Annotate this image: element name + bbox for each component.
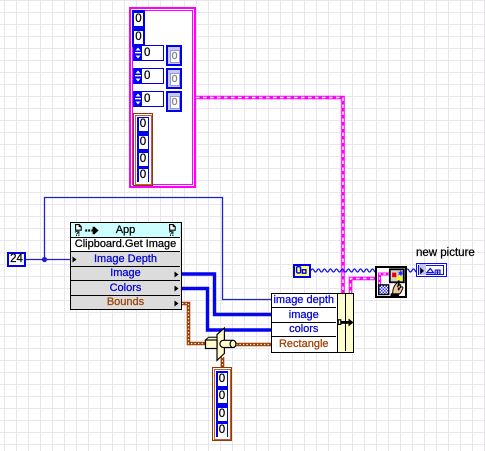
- numeric constant 24: [7, 252, 26, 267]
- property row Bounds: [71, 296, 180, 309]
- header icon: dotted arrow: [85, 226, 99, 235]
- internal magenta wire elbow: [380, 274, 390, 285]
- header icon: page with ?! (left): [75, 224, 84, 236]
- wire: thick blue Image output to bundle-by-name image input: [182, 274, 272, 315]
- label new picture: [416, 247, 475, 259]
- numeric control row 2 (spinner 0): [133, 68, 164, 84]
- bundle-by-name node rows: [271, 293, 338, 353]
- svg-text:?!: ?!: [169, 231, 174, 236]
- row image depth: [272, 294, 336, 308]
- picture frame glyph: [390, 269, 404, 282]
- property node class row Clipboard.Get Image: [71, 238, 180, 252]
- numeric constants column (two 0 cells, blue): [132, 10, 145, 47]
- property row Image Depth: [71, 253, 180, 267]
- inner cluster constant of 4 numerics (brown, inside top cluster): [133, 113, 153, 186]
- row Rectangle: [272, 338, 336, 351]
- junction dot on integer wire: [42, 257, 47, 262]
- row image: [272, 309, 336, 323]
- wire: thin blue branch up from junction, across top, down to bundle-by-name image depth: [45, 198, 273, 300]
- row colors: [272, 323, 336, 337]
- Draw Flattened Pixmap function icon: [375, 266, 407, 298]
- wire: brown cluster from bottom array constant up to bundle function bottom input: [221, 357, 225, 368]
- wire: magenta cluster from top cluster constant to bundle-by-name input column: [196, 98, 343, 295]
- wire: brown cluster from bundle function output to bundle-by-name Rectangle input: [236, 343, 272, 347]
- wire: blue squiggly picture wire from Draw Flattened Pixmap to new picture terminal: [406, 269, 418, 272]
- wire: magenta cluster from bundle-by-name output up and right to Draw Flattened Pixmap: [351, 279, 378, 295]
- bundle-by-name yellow terminal columns: [337, 293, 354, 353]
- svg-text:?!: ?!: [75, 231, 80, 236]
- boxed numeric constant 2 (lavender): [166, 68, 182, 89]
- empty picture constant: [293, 264, 311, 278]
- numeric control row 1 (spinner 0): [133, 45, 164, 61]
- cluster constant of 4 numerics (bottom, brown): [212, 367, 232, 441]
- checkered pixmap glyph: [379, 285, 389, 295]
- property row Colors: [71, 282, 180, 296]
- bundle function (funnel) body: [206, 328, 236, 360]
- indicator terminal new picture: [416, 263, 448, 278]
- cluster constant (top, magenta): [129, 7, 196, 188]
- property row Image: [71, 267, 180, 281]
- output arrow Bounds: [174, 300, 179, 307]
- hand glyph: [390, 280, 403, 296]
- bundle-by-name arrow glyph: [337, 317, 355, 329]
- numeric control row 3 (spinner 0): [133, 91, 164, 107]
- input arrow Image Depth: [72, 256, 77, 263]
- boxed numeric constant 1 (lavender): [166, 45, 182, 66]
- property node header row App: [71, 223, 180, 238]
- wire: brown cluster from Bounds output down to bundle function left input: [182, 304, 206, 344]
- output arrow Colors: [174, 285, 179, 292]
- property node App (Clipboard.Get Image): [70, 222, 182, 310]
- wire: thin blue from constant 24 to property node Image Depth input: [26, 259, 70, 261]
- output arrow Image: [174, 271, 179, 278]
- wire: blue squiggly picture wire from empty picture constant to Draw Flattened Pixmap: [311, 269, 377, 272]
- boxed numeric constant 3 (lavender): [166, 91, 182, 112]
- wire: thick blue Colors output to bundle-by-name colors input: [182, 289, 272, 331]
- header icon: page with ?! (right): [169, 224, 178, 236]
